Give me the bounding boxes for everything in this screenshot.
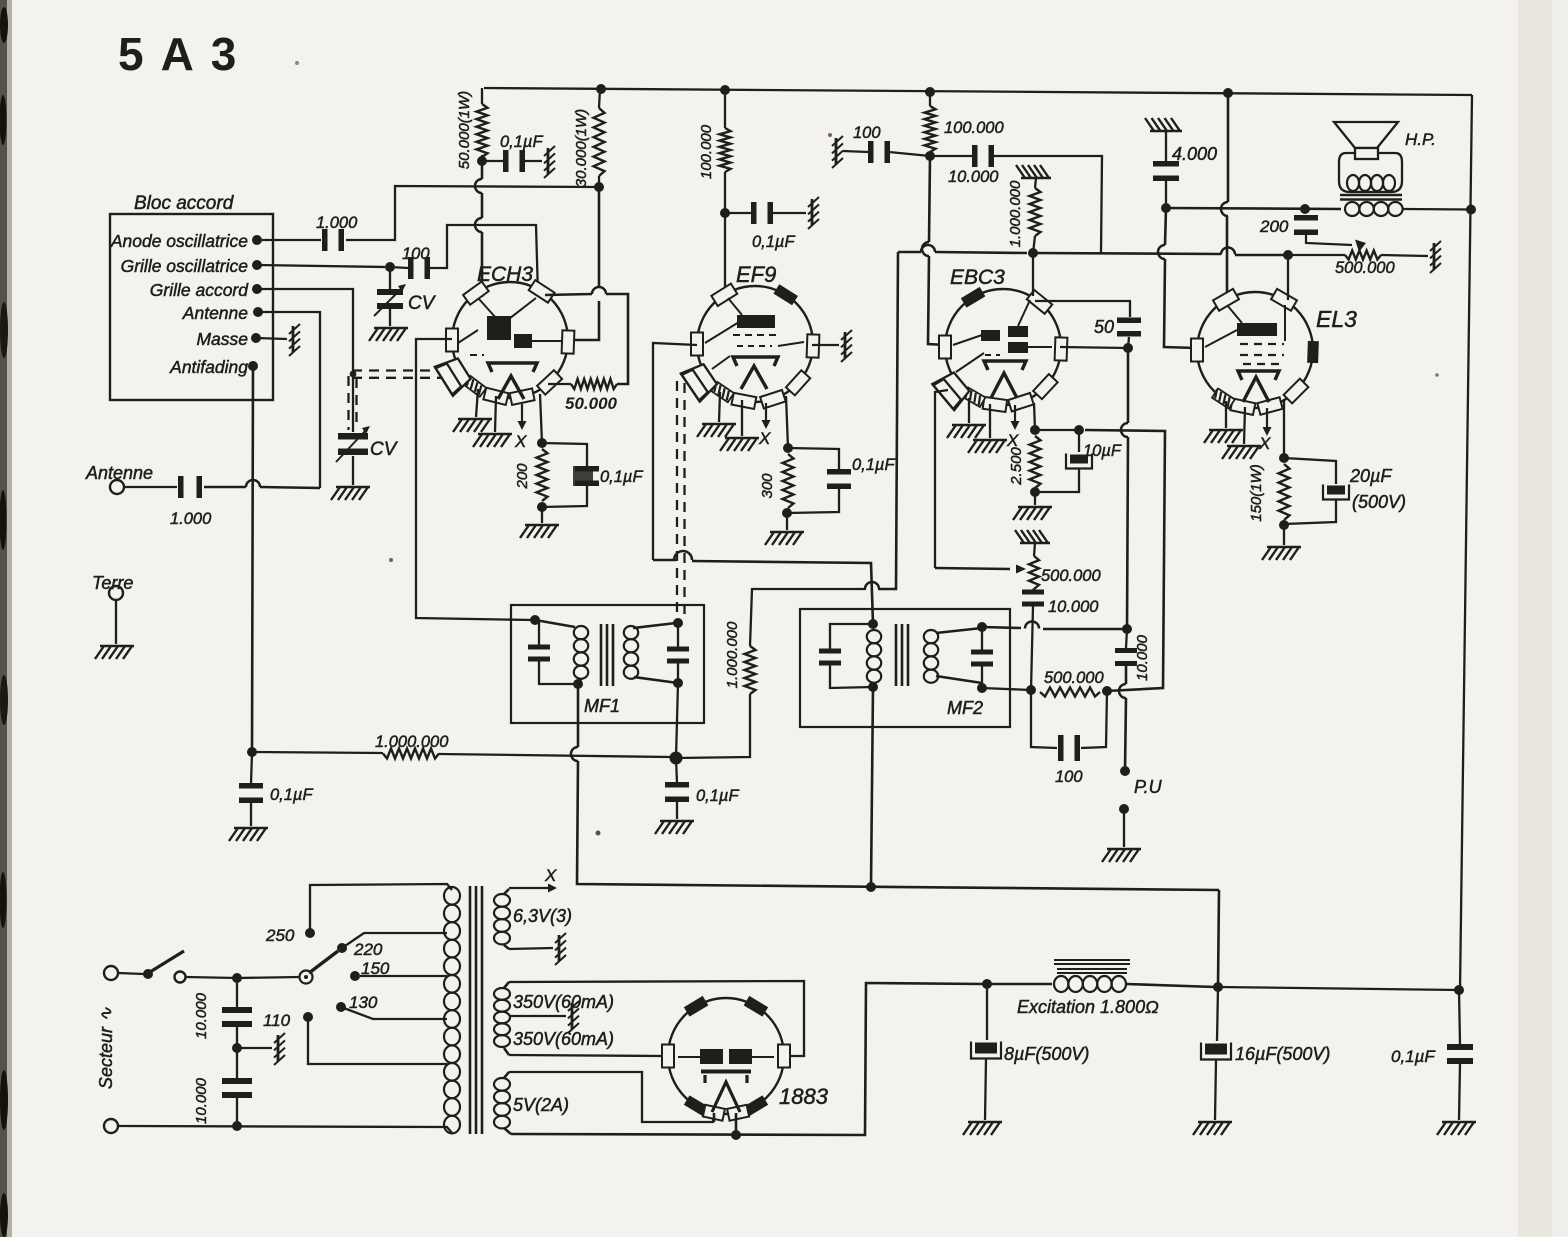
- label 10.000 coupling: [948, 168, 999, 186]
- node EBC3 anode junction: [925, 151, 935, 161]
- coil MF1 secondary: [624, 626, 638, 639]
- label Bloc accord: [134, 193, 235, 214]
- capacitor 200 tone: [1294, 215, 1318, 235]
- svg-text:100: 100: [1055, 768, 1083, 786]
- arrow EBC3 grid to volume pot wiper: [935, 568, 1010, 569]
- node ECH3 cathode bottom: [537, 502, 547, 512]
- svg-text:100: 100: [853, 124, 881, 142]
- resistor 2.500 EBC3: [1030, 436, 1041, 488]
- ground mains filter: [274, 1033, 285, 1065]
- capacitor MF2 primary: [819, 649, 841, 666]
- node grille osc junction: [385, 262, 395, 272]
- wire 50 cap top stub: [1129, 301, 1131, 317]
- label CV1: [408, 293, 437, 314]
- node det res right: [1102, 686, 1112, 696]
- tube EL3 internals: [1237, 323, 1277, 336]
- svg-text:EBC3: EBC3: [950, 266, 1005, 289]
- svg-text:500.000: 500.000: [1335, 259, 1395, 277]
- label 100.000 EF9: [698, 124, 715, 179]
- svg-text:0,1µF: 0,1µF: [696, 787, 739, 805]
- coil MF1 primary: [535, 620, 575, 627]
- wire ECH3 anode to MF1: [416, 339, 533, 620]
- tube ECH3 grid-cap pin: [435, 358, 471, 395]
- wire tone line to pot: [1288, 254, 1345, 256]
- node mains filter mid: [232, 1043, 242, 1053]
- label 50.000(1W): [456, 91, 473, 169]
- ground terre: [95, 646, 134, 659]
- core output transformer: [1340, 194, 1402, 197]
- svg-text:CV: CV: [370, 439, 399, 460]
- svg-text:ECH3: ECH3: [477, 263, 533, 286]
- ground 8µF: [963, 1122, 1002, 1135]
- node tap 130: [336, 1002, 346, 1012]
- svg-text:8µF(500V): 8µF(500V): [1004, 1044, 1089, 1064]
- wire EBC3 pin ground 1: [968, 398, 970, 423]
- label X EL3: [1258, 434, 1271, 453]
- label 300: [759, 473, 776, 499]
- wire antenne pin: [258, 312, 320, 488]
- wire MF1 sec cap bottom: [677, 663, 679, 683]
- label EF9: [736, 262, 776, 287]
- wire AVC right: [676, 694, 750, 758]
- shielded dashed pair EF9 grid to MF1: [676, 381, 678, 618]
- capacitor CV2 variable: [338, 433, 368, 455]
- ground AVC cap: [655, 821, 694, 834]
- svg-text:200: 200: [514, 463, 531, 490]
- wire 1.000 cap to bloc antenne: [204, 486, 246, 489]
- capacitor 0,1µF AVC: [665, 782, 689, 802]
- wire EF9 100.000 stub: [724, 90, 726, 128]
- svg-text:X: X: [758, 429, 771, 448]
- label 500.000 det: [1044, 669, 1104, 687]
- svg-text:MF1: MF1: [584, 696, 620, 716]
- wire EF9 anode pin left: [653, 343, 697, 560]
- ground ECH3 screen cap: [544, 146, 555, 178]
- label MF1: [584, 696, 620, 716]
- svg-text:2.500: 2.500: [1008, 447, 1025, 486]
- core Excitation choke: [1054, 959, 1130, 961]
- wire EF9 bypass top: [788, 448, 839, 469]
- node P.U ground side: [1119, 804, 1129, 814]
- svg-text:Grille oscillatrice: Grille oscillatrice: [121, 256, 249, 276]
- coil transformer primary: [444, 887, 460, 905]
- ground EBC3 cathode: [1013, 507, 1052, 520]
- svg-text:X: X: [1258, 434, 1271, 453]
- node osc anode junction: [477, 156, 487, 166]
- label 1.000 antenne: [170, 510, 212, 528]
- node EL3 anode line: [1161, 203, 1171, 213]
- ground EF9 pin2: [720, 438, 759, 451]
- wire 1883 filament right to output: [735, 1113, 738, 1135]
- ground EF9 pin1: [697, 424, 736, 437]
- wire tone line right: [1033, 253, 1221, 254]
- resistor 100.000 EBC3: [925, 106, 936, 152]
- wire 30.000 top stub: [599, 89, 600, 108]
- wire EF9 bypass bottom: [787, 489, 839, 513]
- wire EL3 pin ground 1: [1225, 401, 1227, 428]
- label 350V upper: [513, 992, 614, 1012]
- wire EF9 cath to ground: [786, 513, 788, 530]
- ground ECH3 pin2: [473, 434, 512, 447]
- label 0,1µF antifading: [270, 786, 313, 804]
- ground 6,3V: [555, 933, 566, 965]
- resistor 300 EF9 cathode: [783, 454, 794, 508]
- wire CV1 stub: [389, 267, 391, 290]
- svg-text:5V(2A): 5V(2A): [513, 1095, 569, 1115]
- paper speck: [596, 831, 601, 836]
- node EF9 supply rail: [720, 85, 730, 95]
- wire EBC3 grid trap down: [935, 390, 948, 568]
- node mains filter top: [232, 973, 242, 983]
- wire ECH3 cath res to ground: [541, 507, 543, 523]
- arrow 200 to pot wiper: [1306, 233, 1352, 245]
- capacitor 4.000: [1153, 161, 1179, 181]
- speaker frame: [1339, 153, 1402, 192]
- svg-text:0,1µF: 0,1µF: [500, 133, 543, 151]
- svg-text:1.000.000: 1.000.000: [1007, 180, 1024, 247]
- svg-text:220: 220: [353, 940, 383, 959]
- label 50: [1094, 317, 1114, 337]
- wire 16µF stub: [1217, 987, 1218, 1041]
- node EBC3 cath bottom: [1030, 487, 1040, 497]
- wire ECH3 cath bypass top: [542, 443, 587, 466]
- svg-text:EL3: EL3: [1316, 306, 1357, 332]
- wire tap 130: [341, 1007, 447, 1019]
- label Anode oscillatrice: [110, 231, 248, 251]
- wire MF1 prim cap top: [535, 620, 539, 645]
- speaker H.P. cone: [1334, 122, 1398, 148]
- svg-text:10.000: 10.000: [1048, 598, 1099, 616]
- wire filter cap1 stub: [236, 978, 238, 1007]
- svg-text:0,1µF: 0,1µF: [852, 456, 895, 474]
- node grille accord pin: [252, 284, 262, 294]
- wire AVC left: [252, 752, 383, 753]
- wire 30.000 down to ECH3 triode anode: [598, 187, 601, 287]
- wire right edge HT: [1460, 95, 1472, 990]
- wire 350V top to rectifier: [509, 981, 804, 1056]
- label Masse: [196, 329, 248, 349]
- wire 0,1µF EF9 to ground: [773, 212, 806, 214]
- wire MF2 primary bottom to HT line: [871, 687, 873, 886]
- svg-text:0,1µF: 0,1µF: [1391, 1047, 1436, 1066]
- wire CV1 to ground: [389, 309, 391, 326]
- resistor 500.000 volume: [1029, 556, 1039, 589]
- ground EF9 screen cap: [808, 197, 819, 229]
- label 500.000 tone: [1335, 259, 1395, 277]
- tube EF9 grid-cap pin: [681, 364, 717, 402]
- label X transformer: [544, 866, 557, 885]
- node masse pin: [251, 333, 261, 343]
- wire 50 cap top line: [1035, 300, 1131, 302]
- capacitor 0,1µF EF9 screen: [751, 202, 773, 224]
- terminal Terre: [109, 586, 123, 600]
- terminal switch contact: [175, 972, 186, 983]
- wire grid res left: [548, 383, 571, 385]
- wire MF2 secondary top to detector: [982, 627, 1021, 628]
- label 0,1µF ECH3 cathode: [600, 468, 643, 486]
- label 200 tone: [1259, 217, 1289, 236]
- node shielded tap: [350, 371, 357, 378]
- node detector junction: [1122, 624, 1132, 634]
- label (500V) EL3: [1352, 492, 1406, 512]
- label 100 EBC3: [853, 124, 881, 142]
- wire junction to 10.000 cap: [930, 155, 972, 157]
- wire EBC3 plate pin to 50 node: [1060, 347, 1128, 348]
- coil MF2 primary: [867, 630, 881, 643]
- wire 10µF stub: [1078, 430, 1080, 452]
- wire MF1 primary bottom to HT line: [577, 684, 580, 747]
- ground tone pot: [1430, 241, 1441, 273]
- svg-text:10.000: 10.000: [948, 168, 999, 186]
- svg-text:110: 110: [263, 1011, 291, 1030]
- capacitor MF1 secondary: [667, 647, 689, 664]
- ground ECH3 pin1: [453, 419, 492, 432]
- capacitor 0,1µF EF9 cathode: [827, 469, 851, 489]
- terminal secteur top: [104, 966, 118, 980]
- tube EBC3 internals: [981, 330, 1000, 341]
- svg-text:0,1µF: 0,1µF: [270, 786, 313, 804]
- heater arrow X EBC3: [1014, 405, 1016, 426]
- svg-text:CV: CV: [408, 293, 437, 314]
- box MF2: [800, 609, 1010, 727]
- label 1.000.000 AVC: [375, 733, 449, 751]
- label Grille oscillatrice: [121, 256, 249, 276]
- tube 1883 pins: [662, 1045, 674, 1068]
- resistor 200 ECH3 cathode: [537, 449, 548, 501]
- node EL3 cathode bottom: [1279, 520, 1289, 530]
- wire 10µF top: [1035, 429, 1079, 431]
- wire tap 110: [308, 1017, 447, 1064]
- ground 16µF: [1193, 1122, 1232, 1135]
- node 30.000 top: [596, 84, 606, 94]
- wire MF2 sec cap top: [981, 627, 983, 650]
- coil 6,3V winding: [504, 889, 509, 894]
- label H.P.: [1405, 130, 1436, 149]
- wire MF2 prim cap top: [830, 624, 873, 649]
- label 50.000 osc grid: [565, 394, 618, 413]
- wire junction to 100 cap: [889, 152, 930, 156]
- svg-text:350V(60mA): 350V(60mA): [513, 992, 614, 1012]
- node choke output: [1213, 982, 1223, 992]
- label 0,1µF EF9 cathode: [852, 456, 895, 474]
- label 8µF(500V): [1004, 1044, 1089, 1064]
- wire AVC mid: [439, 754, 670, 757]
- capacitor 10.000 coupling: [972, 145, 994, 167]
- svg-text:5A3: 5A3: [118, 28, 253, 80]
- capacitor 100 det: [1058, 735, 1080, 761]
- wire antifading cap to ground: [250, 803, 252, 826]
- tube 1883 envelope: [668, 998, 784, 1114]
- node tap 220: [337, 943, 347, 953]
- svg-text:Terre: Terre: [92, 573, 133, 593]
- ground masse: [289, 324, 300, 356]
- wire EF9 right pin to ground: [812, 344, 839, 346]
- capacitor 0,1µF antifading: [239, 783, 263, 803]
- wire 100 cap to ground: [843, 151, 868, 152]
- box MF1: [511, 605, 704, 723]
- wire ECH3 pin to ground 2: [495, 396, 496, 432]
- wire EL3 cathode down: [1283, 401, 1285, 458]
- wire EF9 screen down: [724, 213, 726, 294]
- node grille osc pin: [252, 260, 262, 270]
- capacitor 8µF: [971, 1042, 1001, 1059]
- label 220: [353, 940, 383, 959]
- switch mains lever: [150, 951, 184, 972]
- wire MF1 prim cap bottom: [539, 661, 576, 684]
- wire terre to ground: [115, 600, 117, 644]
- svg-text:10.000: 10.000: [1134, 634, 1151, 681]
- node choke input: [982, 979, 992, 989]
- svg-text:1883: 1883: [779, 1084, 829, 1109]
- node filament center: [731, 1130, 741, 1140]
- node EF9 screen junction: [720, 208, 730, 218]
- wire EF9 pin ground 2: [741, 400, 743, 436]
- capacitor CV1 variable: [377, 289, 403, 309]
- node antifading junction: [247, 747, 257, 757]
- node osc coupling junction: [594, 182, 604, 192]
- wire tap 150: [360, 975, 447, 977]
- wire osc anode feed down into ECH3: [481, 161, 484, 179]
- svg-text:Antifading: Antifading: [169, 357, 248, 377]
- wire 100 cap left: [1031, 690, 1057, 748]
- wire detector line down to P.U: [1127, 348, 1130, 423]
- wire output primary line: [1166, 208, 1341, 209]
- switch voltage selector lever: [309, 951, 338, 973]
- capacitor 1.000 anode osc: [322, 229, 344, 251]
- wire EL3 cath ground: [1283, 525, 1285, 545]
- wire CV2 to ground: [352, 456, 354, 485]
- label 200: [514, 463, 531, 490]
- node AVC junction: [670, 752, 683, 765]
- wire junction to 0,1µF EF9: [725, 212, 752, 214]
- svg-text:0,1µF: 0,1µF: [752, 233, 795, 251]
- label 110: [263, 1011, 291, 1030]
- label 1.000 anode osc: [316, 214, 358, 232]
- ground EF9 cathode: [765, 532, 804, 545]
- wire EBC3 grid feed down: [929, 156, 930, 242]
- label 100 det: [1055, 768, 1083, 786]
- ground CV2: [331, 487, 370, 500]
- label 0,1µF AVC: [696, 787, 739, 805]
- label X EBC3: [1006, 431, 1019, 450]
- wire MF2 sec cap bottom: [981, 666, 983, 688]
- ground EL3 pin1: [1204, 430, 1243, 443]
- core MF1: [600, 624, 603, 686]
- label 100.000 EBC3: [944, 119, 1004, 137]
- resistor 1.000.000 MF: [745, 646, 756, 694]
- label 150: [361, 959, 390, 978]
- wire 8µF stub: [986, 984, 988, 1040]
- capacitor MF2 secondary: [971, 650, 993, 667]
- wire MF1 sec cap top: [677, 623, 679, 647]
- svg-text:250: 250: [265, 926, 295, 945]
- label X ECH3: [514, 432, 527, 451]
- wire 1M EBC3 stub: [1035, 178, 1036, 188]
- wire mid to ground: [237, 1047, 272, 1049]
- wire pot to ground: [1381, 255, 1428, 256]
- wire HT line up from choke output: [1218, 890, 1219, 987]
- label Antenne pin: [182, 303, 248, 323]
- node EL3 cathode top: [1279, 453, 1289, 463]
- resistor 500.000 AVC det: [1040, 688, 1100, 697]
- wire filter to selector: [237, 977, 299, 978]
- svg-text:150(1W): 150(1W): [1248, 464, 1265, 522]
- node EF9 cathode top: [783, 443, 793, 453]
- resistor 100.000 EF9: [720, 128, 731, 172]
- resistor 500.000 tone pot: [1345, 251, 1381, 260]
- wire grille accord to CV2: [257, 289, 353, 432]
- wire 10.000 cap to EL3 grid line: [994, 156, 1102, 253]
- label 10.000 mains2: [193, 1077, 210, 1124]
- label 20µF: [1349, 466, 1392, 486]
- svg-text:1.000.000: 1.000.000: [375, 733, 449, 751]
- node P.U hot: [1120, 766, 1130, 776]
- wire 0,1µF right to ground: [1459, 1064, 1460, 1120]
- node EBC3 supply rail: [925, 87, 935, 97]
- tube EBC3 pins: [961, 287, 986, 308]
- resistor 50.000 osc grid: [571, 379, 617, 389]
- arrow CV2 variable: [336, 430, 366, 462]
- wire EF9 cathode down: [786, 396, 788, 448]
- label Excitation: [1017, 997, 1159, 1017]
- svg-text:MF2: MF2: [947, 698, 983, 718]
- node ECH3 cathode top: [537, 438, 547, 448]
- tube ECH3 west pin: [446, 329, 458, 352]
- ground EL3 cathode: [1262, 547, 1301, 560]
- heater arrow X EL3: [1266, 408, 1268, 432]
- node MF2 primary top: [868, 619, 878, 629]
- svg-text:16µF(500V): 16µF(500V): [1235, 1044, 1330, 1064]
- svg-text:P.U: P.U: [1134, 777, 1163, 797]
- resistor 150(1W) EL3: [1279, 464, 1290, 520]
- wire vol pot stub: [1034, 543, 1035, 556]
- svg-text:EF9: EF9: [736, 262, 776, 287]
- svg-text:X: X: [1006, 431, 1019, 450]
- capacitor 0,1µF output: [1447, 1044, 1473, 1064]
- svg-text:1.000.000: 1.000.000: [724, 621, 741, 688]
- svg-text:50.000: 50.000: [565, 394, 618, 413]
- coil output transformer primary: [1345, 202, 1359, 216]
- label 1.000.000 MF: [724, 621, 741, 688]
- label 130: [349, 993, 378, 1012]
- wire 50 cap bottom stub: [1128, 337, 1129, 348]
- capacitor 1.000 antenne: [178, 476, 202, 498]
- wire ECH3 cath bypass bottom: [542, 486, 587, 507]
- label 5V(2A): [513, 1095, 569, 1115]
- wire MF2 prim cap bottom: [830, 665, 873, 688]
- node EBC3 cathode: [1030, 425, 1040, 435]
- svg-text:1.000: 1.000: [170, 510, 212, 528]
- ground CV1: [369, 328, 408, 341]
- box Bloc accord: [110, 214, 273, 400]
- label 100 osc grid: [402, 245, 430, 263]
- svg-text:130: 130: [349, 993, 378, 1012]
- node HT right: [1466, 205, 1476, 215]
- wire junction to 100 cap: [390, 267, 408, 268]
- svg-text:20µF: 20µF: [1349, 466, 1392, 486]
- capacitor 50: [1117, 318, 1141, 337]
- svg-text:6,3V(3): 6,3V(3): [513, 906, 572, 926]
- node EL3 grid: [1283, 250, 1293, 260]
- capacitor 100 osc grid: [408, 257, 430, 279]
- node HT 0,1µF: [1454, 985, 1464, 995]
- wire EL3 screen feed: [1227, 93, 1230, 202]
- wire EF9 anode to MF2 primary: [653, 559, 676, 562]
- label 6,3V(3): [513, 906, 572, 926]
- label X EF9: [758, 429, 771, 448]
- svg-text:350V(60mA): 350V(60mA): [513, 1029, 614, 1049]
- wire 350V center tap: [509, 1015, 566, 1017]
